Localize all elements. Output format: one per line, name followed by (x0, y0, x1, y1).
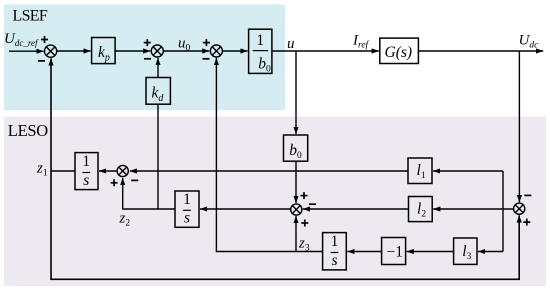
wire: z3 riser branch into J4 bottom (295, 216, 297, 252)
sign - at J5 lower right (131, 179, 138, 181)
svg-text:−1: −1 (387, 243, 404, 260)
block label 1/s (82, 153, 90, 189)
wire: l3 output to -1 block (407, 251, 454, 253)
wire: z2 output left and up into J5 (123, 178, 175, 209)
block label 1/b0 fraction (253, 32, 271, 75)
wire: U_dc_ref input into J1 (9, 50, 44, 52)
svg-text:LESO: LESO (8, 121, 48, 140)
svg-text:LSEF: LSEF (13, 7, 48, 24)
svg-text:Udc: Udc (519, 33, 540, 51)
wire: z3 line left and riser to J3 (216, 58, 322, 252)
block b0 (284, 135, 308, 161)
wire: feed to l3 (478, 251, 503, 253)
wire: J3 to 1/b0 block (222, 50, 247, 52)
wire: left bus up into J1 bottom (50, 58, 52, 171)
summing junction J3 (210, 45, 222, 57)
svg-text:G(s): G(s) (385, 44, 413, 61)
summing junction J6 (514, 203, 525, 214)
svg-text:1: 1 (256, 32, 264, 49)
sign + at J5 lower left (111, 179, 118, 186)
sign - at J1 lower left (38, 60, 45, 62)
wire: -1 output to z3 integrator (347, 251, 381, 253)
block l2 (409, 197, 433, 222)
block kd (146, 78, 170, 105)
wire: kp to J2 (115, 50, 150, 52)
summing junction J4 (291, 204, 302, 215)
wire: 1/b0 to G(s) with u tap (272, 50, 379, 52)
wire: l2 output to J4 (303, 208, 409, 210)
wire: z1 output to left bus (51, 170, 75, 172)
block l1 (408, 158, 432, 184)
sign + at J1 upper left (41, 36, 48, 43)
svg-text:Iref: Iref (352, 33, 370, 51)
svg-text:s: s (184, 210, 190, 227)
sign - at J3 lower left (203, 58, 210, 60)
sign + at J6 lower right (523, 219, 530, 226)
wire: U_dc drop to J6 top (518, 51, 520, 202)
wire: feed to l1 (433, 170, 503, 172)
wire: J4 output to z2 integrator (200, 208, 291, 210)
block z1 integrator 1/s (75, 153, 98, 190)
wire: J2 to J3 with u0 (163, 50, 209, 52)
LSEF region background (4, 5, 285, 111)
block z3 integrator 1/s (323, 233, 347, 270)
wire: l1 output to J5 (130, 170, 408, 172)
sign - at J2 lower left (144, 58, 151, 60)
wire: J5 output to z1 integrator (99, 170, 117, 172)
sign + at J3 upper left (203, 39, 210, 46)
wire: G(s) to U_dc output (418, 50, 543, 52)
sign + at J2 upper left (144, 39, 151, 46)
block l3 (454, 238, 477, 264)
wire: z2 branch up to kd (157, 104, 159, 209)
wire: J6 output to l2 (433, 208, 513, 210)
svg-text:1: 1 (331, 233, 339, 250)
svg-text:s: s (331, 252, 337, 269)
wire: J1 to kp (57, 50, 91, 52)
block -1 (382, 238, 406, 265)
sign - at J6 upper right (524, 194, 531, 196)
svg-text:s: s (83, 172, 89, 189)
wire: feedback distribution vertical at x=503 (502, 171, 504, 252)
wire: left bus down and bottom line to right riser (51, 171, 519, 279)
sign - at J4 right (309, 203, 316, 205)
wire: u drop to b0 (295, 51, 297, 134)
svg-text:u: u (287, 36, 295, 52)
svg-text:1: 1 (183, 191, 191, 208)
block z2 integrator 1/s (175, 191, 199, 227)
summing junction J1 (45, 45, 57, 57)
sign + at J4 top right (301, 192, 308, 199)
block label 1/s (331, 233, 339, 269)
LESO region background (4, 117, 546, 287)
block 1/b0 (249, 29, 272, 73)
block kp (92, 38, 116, 64)
block label 1/s (183, 191, 191, 227)
wire: b0 to J4 top (295, 161, 297, 203)
svg-text:1: 1 (82, 153, 90, 170)
summing junction J5 (117, 165, 128, 176)
summing junction J2 (151, 45, 163, 57)
wire: kd output into J2 bottom (157, 58, 159, 78)
sign + at J4 bottom right (301, 220, 308, 227)
block G(s) (380, 38, 419, 63)
